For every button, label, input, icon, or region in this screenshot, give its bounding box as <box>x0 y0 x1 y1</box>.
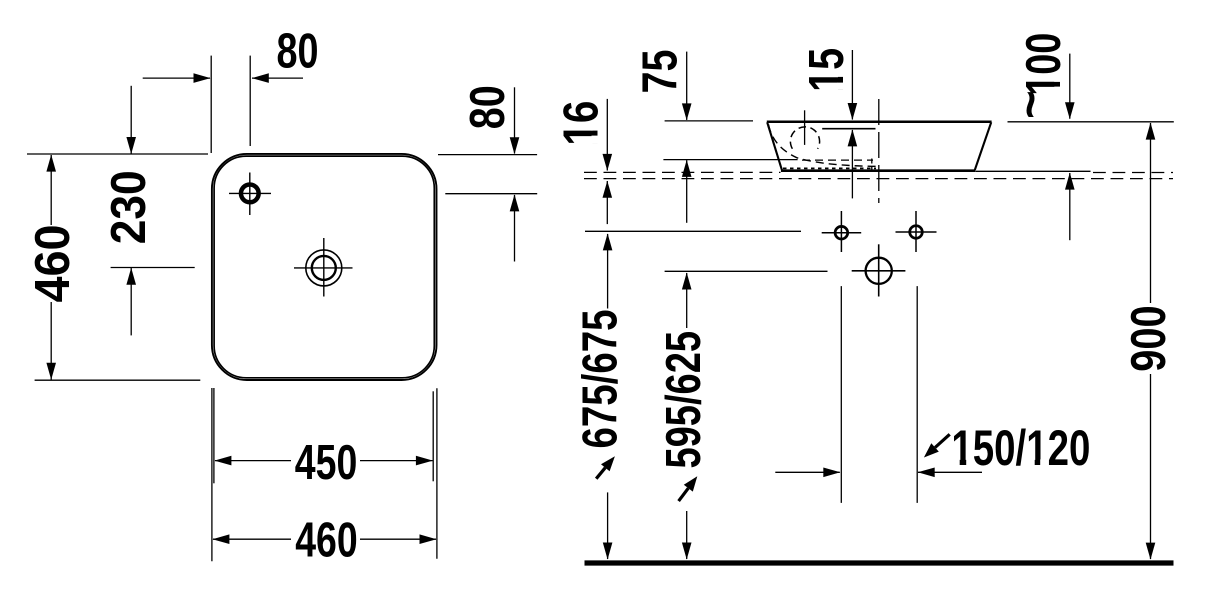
extension line inner bottom level <box>663 159 797 161</box>
extension line fixing holes level <box>585 230 801 232</box>
drain hidden vertical dashed <box>871 159 873 171</box>
svg-text:230: 230 <box>102 170 156 244</box>
dimension 15 stem <box>848 50 858 198</box>
extension line top edge level right <box>438 154 537 156</box>
oblique arrow 595 <box>679 476 698 501</box>
dimension 675/675 stem <box>603 233 613 559</box>
svg-text:900: 900 <box>1122 305 1176 372</box>
mask feet of 1s in 150/120 <box>953 459 1047 465</box>
washbasin plan view inner rim 450x450 <box>214 156 434 378</box>
dimension 595/625 stem <box>682 273 692 560</box>
faucet hole plan <box>229 173 271 216</box>
svg-text:75: 75 <box>634 50 688 94</box>
mask foot of 1 in 16 <box>592 123 599 143</box>
label 230 <box>102 170 156 244</box>
label 460 bottom <box>295 514 358 568</box>
dimension 150/120 dim line <box>775 468 982 478</box>
svg-text:~: ~ <box>1004 90 1058 119</box>
drain centerline side dashed <box>878 99 880 203</box>
mask foot of 1 in ~100 <box>1054 75 1060 93</box>
sump floor dotted <box>783 167 876 169</box>
svg-text:460: 460 <box>295 514 358 568</box>
basin side profile bottom <box>781 169 975 172</box>
countertop top surface solid right <box>976 170 1091 172</box>
drain hole side <box>852 244 906 296</box>
fixing hole right side <box>896 211 937 252</box>
extension line faucet centerline <box>249 56 251 146</box>
label 450 <box>295 436 358 490</box>
dimension 16 stem <box>603 99 613 224</box>
faucet centerline side <box>804 110 806 145</box>
floor line <box>585 560 1174 565</box>
countertop top surface dashed left <box>584 171 781 173</box>
label 16 <box>554 101 608 146</box>
label 80 top <box>277 25 319 79</box>
hidden bowl contour dashed <box>769 125 878 167</box>
dimension 230 lower arrow <box>126 268 136 336</box>
hidden faucet hole circle dashed <box>790 127 819 149</box>
label 150/120 <box>951 420 1090 476</box>
svg-text:16: 16 <box>554 101 608 146</box>
oblique arrow 150/120 <box>924 434 950 457</box>
label 15 <box>800 48 854 92</box>
extension line rim level right <box>1008 121 1174 123</box>
label 75 <box>634 50 688 94</box>
label 460 left <box>26 225 80 303</box>
basin side profile right wall <box>975 122 991 170</box>
dimension 460 bottom dim line <box>212 534 436 544</box>
extension line basin top edge level <box>27 153 208 155</box>
svg-text:15: 15 <box>800 48 854 92</box>
label 595/625 <box>657 331 711 469</box>
dimension 80 top dim line <box>143 73 303 83</box>
dimension 450 dim line <box>214 456 433 466</box>
countertop top surface dashed right <box>1093 172 1173 174</box>
washbasin plan view outer rim 460x460 <box>212 154 437 380</box>
svg-text:675/675: 675/675 <box>574 310 628 449</box>
basin side profile rim <box>767 121 992 124</box>
svg-text:80: 80 <box>461 85 515 129</box>
oblique arrow 675 <box>596 456 615 479</box>
countertop bottom surface dashed <box>584 178 1173 180</box>
drain hole plan <box>294 238 353 297</box>
svg-text:100: 100 <box>1017 33 1071 96</box>
svg-text:450: 450 <box>295 436 358 490</box>
extension line hole left drop <box>840 286 842 503</box>
dimension ~100 stem <box>1065 54 1075 241</box>
dimension 80 right stem <box>510 87 520 261</box>
label 675/675 <box>574 310 628 449</box>
extension line faucet level right <box>445 193 537 195</box>
extension line rim level left <box>665 120 753 122</box>
svg-text:80: 80 <box>277 25 319 79</box>
extension line 450 left <box>213 388 215 483</box>
svg-text:595/625: 595/625 <box>657 331 711 469</box>
extension line 460 left <box>211 388 213 561</box>
extension line basin bottom edge level <box>35 379 201 381</box>
extension line hole right drop <box>916 286 918 503</box>
extension line 450 right <box>432 391 434 481</box>
label 80 right <box>461 85 515 129</box>
dimension 230 upper arrow <box>126 86 136 154</box>
extension line drain level side <box>665 270 828 272</box>
overflow level line <box>822 128 875 130</box>
extension line drain center level <box>111 267 195 269</box>
dimension 900 stem <box>1146 123 1156 560</box>
extension line basin left edge <box>210 56 212 153</box>
basin side profile left wall <box>767 122 782 170</box>
label ~100 <box>1004 33 1071 119</box>
label 900 <box>1122 305 1176 372</box>
dimension 460 left stem <box>46 155 56 380</box>
svg-text:150/120: 150/120 <box>951 420 1090 476</box>
hidden inner bottom dashed <box>802 159 873 161</box>
svg-text:460: 460 <box>26 225 80 303</box>
mask foot of 1 in 15 <box>838 70 845 89</box>
fixing hole left side <box>822 211 862 252</box>
extension line 460 right <box>436 388 438 559</box>
dimension 75 stem <box>682 52 692 223</box>
